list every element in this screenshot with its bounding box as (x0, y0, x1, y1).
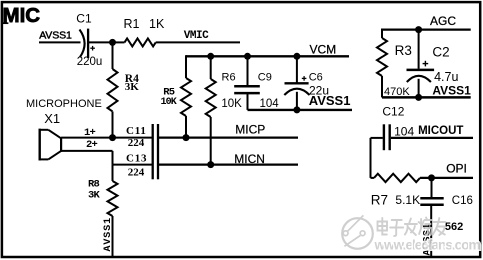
svg-text:AGC: AGC (430, 14, 456, 28)
svg-text:AVSS1: AVSS1 (309, 93, 351, 108)
svg-text:10K: 10K (161, 97, 177, 108)
svg-text:C11: C11 (126, 125, 147, 137)
svg-text:C9: C9 (258, 72, 272, 84)
svg-text:224: 224 (128, 137, 145, 149)
svg-text:VMIC: VMIC (184, 30, 209, 42)
svg-text:104: 104 (394, 124, 414, 138)
svg-text:5.1K: 5.1K (395, 193, 420, 207)
svg-text:AVSS1: AVSS1 (39, 30, 72, 42)
svg-text:AVSS1: AVSS1 (432, 84, 471, 98)
svg-text:MICP: MICP (235, 123, 265, 137)
svg-text:MIC: MIC (3, 4, 41, 27)
svg-text:www.elecfans.com: www.elecfans.com (374, 237, 481, 252)
svg-text:C2: C2 (432, 44, 449, 59)
svg-text:3K: 3K (88, 190, 101, 202)
svg-text:C12: C12 (382, 105, 404, 119)
svg-text:MICN: MICN (234, 152, 265, 166)
svg-text:4.7u: 4.7u (434, 70, 458, 84)
svg-text:10K: 10K (221, 98, 242, 110)
svg-text:224: 224 (128, 167, 145, 179)
svg-text:OPI: OPI (446, 161, 467, 175)
svg-text:MICROPHONE: MICROPHONE (26, 98, 102, 110)
svg-text:AVSS1: AVSS1 (103, 217, 114, 252)
svg-text:470K: 470K (384, 86, 410, 98)
svg-text:104: 104 (260, 98, 280, 110)
svg-text:R3: R3 (395, 43, 412, 58)
svg-text:R7: R7 (371, 192, 388, 207)
svg-text:X1: X1 (44, 111, 60, 126)
svg-text:C13: C13 (126, 152, 147, 164)
svg-text:R6: R6 (222, 72, 236, 84)
svg-text:220u: 220u (77, 56, 103, 68)
svg-text:R8: R8 (88, 178, 100, 190)
svg-text:C6: C6 (309, 72, 323, 84)
svg-text:1K: 1K (149, 17, 165, 31)
svg-text:562: 562 (445, 221, 463, 233)
svg-text:C16: C16 (452, 195, 473, 207)
svg-text:R1: R1 (124, 17, 140, 31)
svg-text:MICOUT: MICOUT (418, 125, 463, 137)
svg-text:C1: C1 (76, 12, 92, 26)
svg-text:VCM: VCM (310, 43, 337, 57)
svg-text:3K: 3K (125, 81, 140, 93)
svg-text:2+: 2+ (86, 139, 98, 151)
